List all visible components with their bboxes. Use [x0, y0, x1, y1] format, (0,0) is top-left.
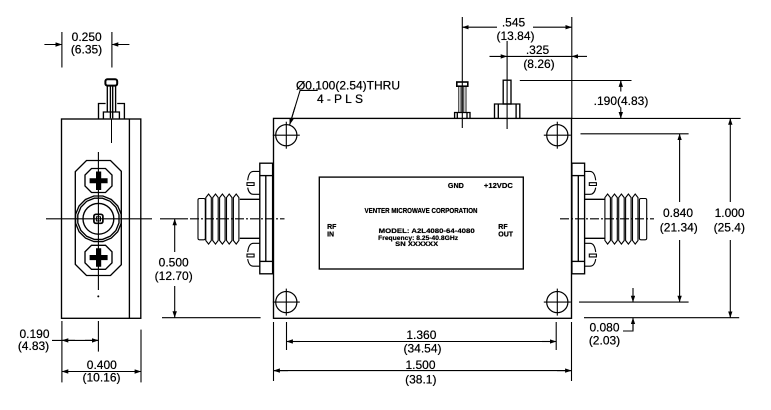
- svg-text:RF: RF: [327, 224, 337, 231]
- svg-text:1.000: 1.000: [715, 206, 745, 220]
- dim hole callout: [290, 90, 318, 124]
- +12V pin centerline: [506, 41, 508, 129]
- dim .190 top right: [520, 81, 632, 119]
- left connector threads: [198, 194, 239, 244]
- side view top DC pin: [99, 79, 125, 143]
- svg-text:(21.34): (21.34): [660, 221, 698, 235]
- right connector bottom screw: [585, 243, 597, 266]
- phillips cross top screw: [90, 172, 108, 191]
- label plate: [319, 177, 523, 269]
- dim .545 top: [462, 17, 572, 118]
- mounting hole top-right: [544, 122, 571, 149]
- phillips cross bottom screw: [90, 248, 108, 266]
- dim 0.190 left view: [52, 321, 98, 352]
- svg-text:Ø0.100(2.54)THRU: Ø0.100(2.54)THRU: [296, 79, 400, 93]
- GND feedthrough pin: [455, 82, 470, 118]
- svg-text:(4.83): (4.83): [18, 339, 49, 353]
- left connector bottom screw: [247, 243, 260, 266]
- svg-text:(38.1): (38.1): [405, 373, 436, 387]
- dim 1.360 bottom: [287, 322, 557, 350]
- side view body: [62, 119, 141, 318]
- right connector centerline: [560, 218, 654, 220]
- svg-text:1.500: 1.500: [405, 358, 435, 372]
- svg-text:(25.4): (25.4): [714, 221, 745, 235]
- SMA center pin: [94, 214, 103, 223]
- svg-text:VENTER MICROWAVE CORPORATION: VENTER MICROWAVE CORPORATION: [365, 208, 478, 215]
- main body: [274, 118, 572, 318]
- svg-text:0.080: 0.080: [589, 321, 619, 335]
- side view SMA connector face: [75, 161, 121, 276]
- svg-text:+12VDC: +12VDC: [484, 183, 513, 190]
- svg-text:SN XXXXXX: SN XXXXXX: [395, 241, 439, 248]
- side view centerlines: [46, 152, 152, 290]
- dim 1.500 bottom: [274, 322, 572, 381]
- SMA nut rings: [76, 196, 122, 242]
- +12VDC feedthrough pin: [495, 80, 520, 118]
- right connector threads: [605, 194, 647, 244]
- right connector barrel: [572, 163, 605, 274]
- dim 0.080: [623, 288, 633, 331]
- mounting hole bottom-left: [273, 289, 300, 316]
- svg-text:0.500: 0.500: [159, 256, 189, 270]
- svg-text:1.360: 1.360: [406, 328, 436, 342]
- svg-text:.190(4.83): .190(4.83): [594, 94, 649, 108]
- dim .325: [490, 55, 588, 57]
- svg-text:.545: .545: [502, 16, 526, 30]
- left connector centerline: [160, 218, 188, 220]
- svg-text:(34.54): (34.54): [403, 342, 441, 356]
- svg-text:(8.26): (8.26): [523, 57, 554, 71]
- svg-text:(2.03): (2.03): [589, 334, 620, 348]
- dim 0.840 right: [579, 134, 689, 302]
- dim 0.500: [162, 219, 261, 318]
- svg-text:(6.35): (6.35): [71, 43, 102, 57]
- svg-text:GND: GND: [448, 183, 464, 190]
- right connector top screw: [585, 171, 597, 194]
- dim 0.250 top-left: [44, 32, 129, 68]
- dim 0.400 left view: [62, 321, 141, 382]
- mounting hole top-left: [273, 122, 300, 149]
- svg-text:0.840: 0.840: [663, 206, 693, 220]
- svg-text:RF: RF: [498, 224, 508, 231]
- svg-text:(12.70): (12.70): [155, 269, 193, 283]
- mounting hole bottom-right: [544, 289, 571, 316]
- svg-text:IN: IN: [327, 232, 334, 239]
- left connector barrel: [240, 163, 273, 274]
- GND pin centerline: [461, 17, 463, 128]
- svg-text:MODEL: A2L4080-64-4080: MODEL: A2L4080-64-4080: [379, 228, 475, 235]
- dim 1.000 right: [572, 118, 741, 317]
- svg-text:OUT: OUT: [498, 232, 514, 239]
- left connector top screw: [247, 171, 260, 194]
- svg-text:.325: .325: [526, 43, 550, 57]
- svg-text:(10.16): (10.16): [82, 371, 120, 385]
- svg-text:(13.84): (13.84): [496, 29, 534, 43]
